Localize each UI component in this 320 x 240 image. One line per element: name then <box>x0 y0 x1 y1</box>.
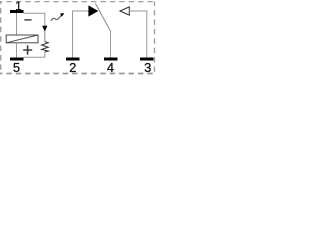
actuation squiggle arrow <box>51 15 62 21</box>
wire open arrow to pin3 <box>129 11 147 58</box>
terminal bar pin 1 <box>10 10 24 13</box>
wire blade to pin4 <box>110 31 112 58</box>
wire pin2 riser <box>73 11 89 58</box>
resistor R1 zigzag <box>42 42 49 53</box>
svg-text:4: 4 <box>107 60 114 75</box>
wire arrow to resistor <box>44 31 46 42</box>
svg-text:3: 3 <box>144 60 151 75</box>
svg-text:2: 2 <box>69 60 76 75</box>
terminal bar pin 3 <box>140 58 154 61</box>
wire resistor to pin5 <box>24 52 45 57</box>
minus polarity sign <box>24 19 31 21</box>
terminal bar pin 5 <box>10 58 24 61</box>
squiggle arrowhead <box>60 13 64 17</box>
terminal bar pin 4 <box>104 58 118 61</box>
moving contact filled arrow <box>88 5 98 16</box>
wire coil to pin5 <box>16 43 18 58</box>
relay body dashed outline right <box>154 2 156 74</box>
wire pin1 to resistor branch <box>24 13 45 26</box>
plus polarity sign <box>23 45 32 54</box>
svg-text:1: 1 <box>15 1 21 13</box>
contact blade diagonal <box>95 3 110 31</box>
NO contact open arrow <box>120 7 129 15</box>
coil K1 box <box>6 35 38 43</box>
coil diagonal <box>6 35 38 43</box>
wire pin1 to coil <box>16 13 18 35</box>
terminal bar pin 2 <box>66 58 80 61</box>
relay body dashed outline left <box>0 2 2 74</box>
svg-text:5: 5 <box>13 60 20 75</box>
relay body dashed outline bottom <box>0 73 155 75</box>
relay body dashed outline top <box>0 1 155 3</box>
arrow down into resistor <box>42 26 47 32</box>
